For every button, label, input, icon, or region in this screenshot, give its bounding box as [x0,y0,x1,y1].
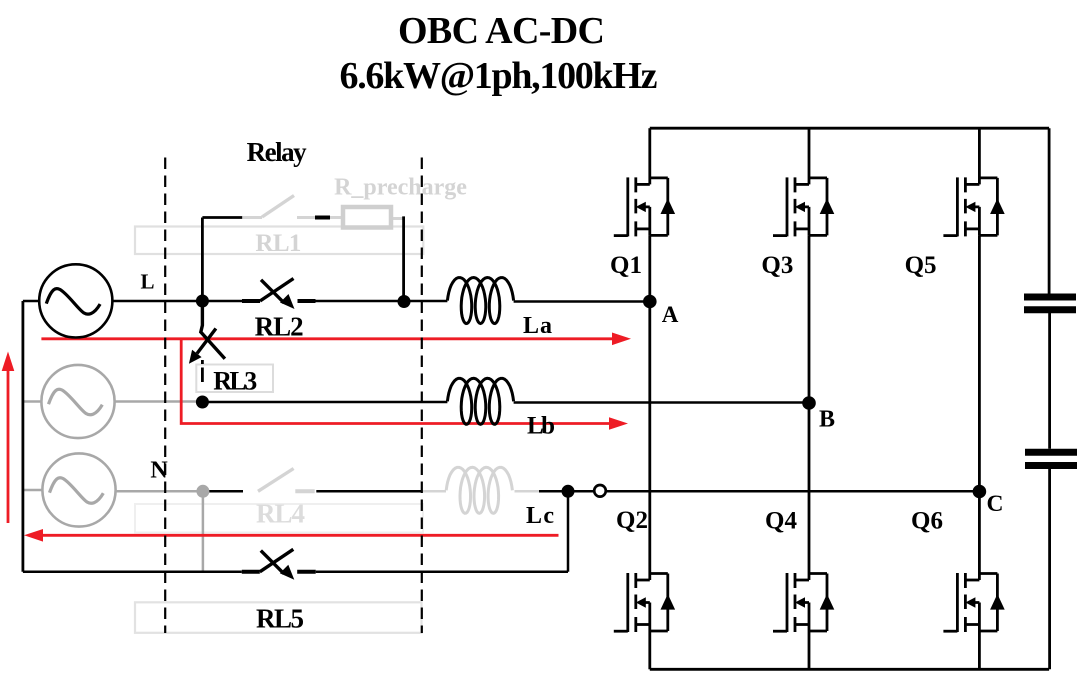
wire cap branch lower [1048,469,1051,669]
svg-text:C: C [987,491,1004,517]
wire node L to RL2 [202,300,242,303]
red current path row La [41,333,631,346]
relay box RL3 [196,365,273,393]
wire leg B middle [808,235,811,580]
svg-text:Lb: Lb [527,412,555,439]
wire RL1 left contact (gray) [242,216,262,219]
transistor Q4 [773,573,827,632]
wire Lc left (light gray) [422,490,446,493]
node A junction dot [643,295,657,309]
AC source V2 (phase 2, gray) [41,365,114,438]
wire V1 left stub [23,300,39,303]
node C junction dot [973,485,987,499]
wire bottom RL5 row [23,571,242,574]
wire Lc right (light gray) [515,490,540,493]
node N junction dot (gray) [196,485,209,498]
wire V3 left stub [23,489,43,492]
top DC bus [650,127,1049,130]
RL4 right contact stub (gray) [295,489,314,493]
svg-text:OBC AC-DC: OBC AC-DC [398,10,605,52]
wire Lc to node (black) [539,490,568,493]
RL2 left contact stub [242,299,260,303]
red return arrow bottom [24,529,559,542]
svg-text:B: B [819,407,835,433]
wire RL1 right contact (gray) [297,216,341,219]
node L junction dot [196,295,209,308]
wire left vertical bus [21,301,24,572]
svg-text:Q4: Q4 [765,508,797,535]
svg-text:A: A [662,302,679,327]
wire node down and phase C to bridge [568,491,979,572]
svg-text:Q6: Q6 [911,508,943,535]
wire leg C upper [978,128,981,184]
relay box RL1 [135,227,423,255]
wire V2 to node [115,400,200,403]
relay contact RL2 lever + cross arrow [260,279,294,303]
AC source V1 (phase L) [39,264,112,337]
svg-text:Lc: Lc [526,503,554,529]
wire leg A lower [648,631,651,669]
RL1 black contact dash [315,216,330,220]
svg-text:Q2: Q2 [616,507,648,534]
inductor Lc (light gray coil) [446,467,512,513]
svg-text:Q5: Q5 [905,252,937,279]
wire leg B upper [808,128,811,184]
transistor Q3 [773,177,827,236]
node phase2 junction dot [196,396,209,409]
svg-text:RL4: RL4 [256,498,305,528]
svg-text:RL1: RL1 [255,230,301,257]
wire RL4 to boundary (black segment) [316,490,421,493]
dashed boundary line left [164,158,166,634]
svg-text:La: La [523,313,552,339]
open terminal circle [594,485,606,497]
svg-text:Relay: Relay [247,137,308,167]
wire resistor right lead (gray) [392,217,404,220]
svg-text:RL3: RL3 [213,367,257,396]
wire leg A middle [648,235,651,580]
transistor Q1 [614,177,668,236]
wire RL5 to corner [316,571,568,574]
wire leg C middle [978,235,981,580]
relay contact RL4 lever (open, gray) [258,469,294,492]
svg-text:R_precharge: R_precharge [334,175,467,201]
node after RL2 junction dot [398,295,411,308]
svg-text:RL5: RL5 [256,604,304,634]
transistor Q6 [943,573,997,632]
wire cap branch upper [1048,128,1051,293]
wire V2 left stub [23,400,42,403]
svg-text:L: L [140,270,154,294]
transistor Q5 [943,177,997,236]
inductor Lb [447,378,513,424]
relay contact RL1 lever (open, gray) [262,196,294,218]
wire V1 to node L [112,300,202,303]
svg-text:Q1: Q1 [610,252,642,279]
svg-text:RL2: RL2 [255,312,304,342]
svg-text:N: N [150,458,168,484]
relay contact RL3 (node L down, crossed arrow) [201,307,225,359]
node B junction dot [802,396,816,410]
wire node 2 to Lb [202,401,447,404]
wire V3 to N node [116,490,203,493]
wire precharge branch right vertical [402,216,405,301]
dashed boundary line right [421,158,423,634]
wire precharge branch left vertical [202,218,242,302]
bottom DC bus [650,668,1049,671]
node Lc junction dot [562,485,575,498]
RL5 right contact stub [297,570,316,574]
svg-text:Q3: Q3 [761,252,793,279]
AC source V3 (neutral, gray) [42,453,115,526]
wire Lb to node B [514,401,809,404]
wire between caps [1048,313,1051,449]
RL3 linkage dashes [201,360,204,382]
RL2 right contact stub [298,299,316,303]
capacitor C1 [1024,294,1076,301]
relay box RL4 [135,504,423,533]
inductor La [447,278,513,324]
RL5 left contact stub [242,570,260,574]
relay contact RL5 lever + cross arrow [260,549,294,573]
transistor Q2 [614,573,668,632]
wire N node down to RL5 line (gray) [202,491,205,570]
red current path row Lb [181,339,628,430]
wire leg B lower [808,631,811,669]
red return arrow left vertical [2,352,15,524]
wire RL2 to node [316,300,448,303]
wire leg C lower [978,631,981,669]
wire N node to RL4 [209,490,243,493]
wire La to node A [514,300,650,303]
capacitor C2 [1025,449,1077,456]
wire leg A upper [648,128,651,184]
resistor R_precharge [343,207,391,228]
relay box RL5 [135,602,422,633]
svg-text:6.6kW@1ph,100kHz: 6.6kW@1ph,100kHz [340,55,658,97]
